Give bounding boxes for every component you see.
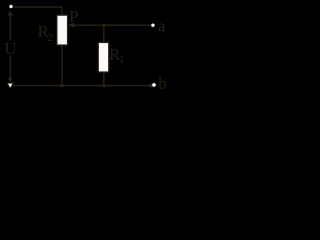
svg-text:2: 2 [47, 30, 53, 44]
node top-left terminal [9, 5, 13, 9]
arrowhead U bottom (white, pointing down) [7, 83, 13, 89]
wire R1 top branch [103, 25, 105, 42]
wire top horizontal [12, 6, 62, 8]
wire top corner down to R2 [61, 6, 63, 15]
wire U arrow upper segment [9, 15, 11, 41]
junction node bottom rail at R2 [61, 84, 64, 87]
junction node on wiper line at R1 [102, 24, 105, 27]
resistor R2 body (potentiometer P) [57, 15, 68, 45]
arrowhead wiper (pointing left into R2) [68, 22, 75, 28]
svg-text:U: U [4, 39, 16, 58]
terminal a node [151, 23, 155, 27]
wire wiper horizontal to terminal a [74, 24, 152, 26]
wire U arrow lower segment [9, 56, 11, 79]
wire R2 bottom to bottom rail [61, 45, 63, 86]
svg-text:a: a [158, 17, 166, 36]
resistor R1 body [98, 43, 108, 73]
arrowhead U bottom dark upper part [8, 78, 13, 83]
wire bottom rail [8, 85, 153, 87]
junction node bottom rail at R1 [102, 84, 105, 87]
svg-text:1: 1 [119, 52, 125, 66]
svg-text:P: P [69, 7, 78, 26]
wire R1 bottom branch [103, 72, 105, 86]
svg-text:b: b [158, 74, 166, 93]
arrowhead U top (dark, pointing up) [7, 10, 13, 16]
terminal b node [150, 84, 154, 88]
